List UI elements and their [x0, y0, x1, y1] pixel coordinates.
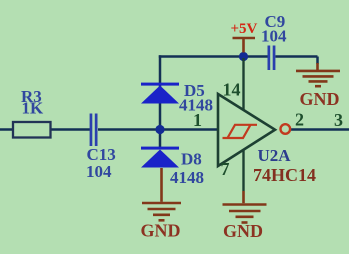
svg-text:104: 104	[86, 162, 112, 181]
svg-text:+5V: +5V	[231, 21, 258, 37]
svg-text:U2A: U2A	[258, 146, 292, 165]
svg-text:74HC14: 74HC14	[253, 165, 316, 185]
svg-text:GND: GND	[300, 89, 340, 109]
svg-text:GND: GND	[141, 221, 181, 241]
svg-text:14: 14	[223, 80, 241, 100]
svg-text:D8: D8	[181, 150, 202, 169]
svg-text:1K: 1K	[22, 99, 45, 118]
svg-text:GND: GND	[223, 221, 263, 241]
svg-text:104: 104	[261, 27, 287, 46]
svg-text:7: 7	[221, 159, 230, 179]
svg-text:1: 1	[193, 110, 202, 130]
svg-text:4148: 4148	[170, 168, 204, 187]
svg-text:3: 3	[334, 110, 343, 130]
svg-text:2: 2	[295, 110, 304, 130]
